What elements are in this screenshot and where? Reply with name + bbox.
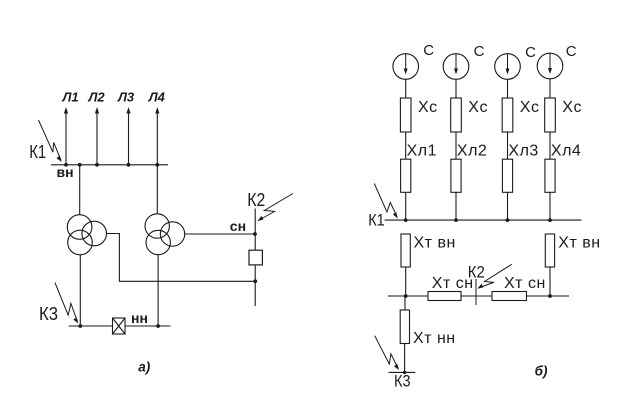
svg-text:Л1: Л1 — [62, 90, 79, 105]
bus К1 — [385, 219, 582, 221]
source G4 circle — [537, 53, 563, 79]
wire T2 НН down — [157, 255, 159, 326]
node dot СН2 — [253, 279, 257, 283]
source G3 circle — [495, 54, 521, 80]
source G2 circle — [443, 54, 469, 80]
svg-text:вн: вн — [57, 164, 74, 180]
node dot b4-СН — [548, 294, 552, 298]
line СН — [388, 295, 569, 297]
fault arrow К3 — [55, 283, 78, 324]
resistor Хт вн left — [401, 234, 410, 267]
arrowhead Л4 — [155, 107, 159, 114]
arrowhead Л3 — [126, 107, 130, 114]
svg-text:Хс: Хс — [520, 99, 540, 116]
resistor Хс4 — [545, 98, 556, 132]
wire Хс2 to Хл2 — [455, 132, 457, 159]
reactor box on СН line — [249, 250, 262, 265]
wire Хл4 to bus — [549, 192, 551, 220]
wire Хс1 to Хл1 — [405, 132, 407, 159]
source G1 arrow — [404, 54, 408, 75]
load box with X on НН — [113, 318, 126, 334]
wire Хс3 to Хл3 — [507, 132, 509, 159]
svg-text:Л3: Л3 — [117, 90, 135, 105]
resistor Хл1 — [401, 159, 411, 192]
svg-text:а): а) — [138, 360, 151, 375]
wire Хт вн left to СН line — [405, 267, 407, 296]
resistor Хл3 — [502, 159, 512, 192]
svg-text:Хт вн: Хт вн — [414, 235, 456, 252]
node К3 tick — [389, 371, 416, 373]
resistor Хс1 — [400, 98, 411, 132]
bottom bus НН — [69, 325, 171, 327]
node dot b3-bus — [506, 218, 510, 222]
node dot Л2-bus — [95, 163, 99, 167]
source G3 arrow — [506, 54, 510, 75]
node dot T2-НН — [156, 324, 160, 328]
svg-text:Хл4: Хл4 — [551, 143, 581, 160]
bus ВН — [51, 164, 168, 166]
wire T1 СН stepped to node СН2 — [107, 234, 256, 282]
wire Хл2 to bus — [455, 192, 457, 220]
resistor Хс3 — [502, 98, 513, 132]
wire Хт вн right to СН line — [549, 267, 551, 296]
svg-text:С: С — [474, 43, 485, 60]
node dot Л4-bus — [155, 163, 159, 167]
svg-text:К2: К2 — [468, 262, 485, 281]
node К2 tick — [475, 279, 477, 305]
transformer T2 winding ВН — [145, 214, 169, 238]
resistor Хл4 — [545, 159, 555, 192]
svg-text:нн: нн — [131, 310, 148, 326]
source G1 circle — [393, 54, 419, 80]
resistor Хт сн right — [492, 292, 527, 301]
transformer T1 winding ВН — [67, 215, 92, 240]
wire Хл1 to bus — [405, 192, 407, 220]
wire G2 to Хс2 — [455, 79, 457, 98]
wire Хл3 to bus — [507, 192, 509, 220]
fault arrow К2 — [257, 194, 293, 222]
transformer T2 winding НН — [146, 230, 170, 254]
svg-text:Хт сн: Хт сн — [504, 275, 546, 292]
svg-text:Л4: Л4 — [148, 90, 166, 105]
node dot b1-СН — [404, 294, 408, 298]
arrowhead Л1 — [64, 107, 68, 114]
svg-text:С: С — [566, 43, 577, 60]
node dot Л1-bus — [64, 163, 68, 167]
node СН vertical line — [254, 209, 256, 307]
node dot T1-НН — [78, 324, 82, 328]
node dot T1-bus — [78, 163, 82, 167]
svg-text:Хс: Хс — [562, 99, 582, 116]
wire line Л1 — [65, 111, 67, 165]
svg-text:Хл2: Хл2 — [457, 143, 487, 160]
wire СН to Хт нн — [404, 296, 406, 310]
wire line Л3 — [128, 111, 130, 165]
svg-text:б): б) — [535, 363, 548, 378]
wire G1 to Хс1 — [405, 79, 407, 98]
wire bus to T1 — [79, 165, 81, 215]
resistor Хс2 — [451, 98, 462, 132]
transformer T2 winding СН — [160, 222, 184, 246]
wire Хс4 to Хл4 — [549, 132, 551, 159]
svg-text:К2: К2 — [247, 190, 265, 210]
wire T1 НН down — [79, 255, 81, 326]
fault arrow К3 right — [375, 336, 399, 370]
wire T2 СН to node СН — [185, 233, 256, 235]
node dot b4-bus — [548, 218, 552, 222]
node dot Л3-bus — [127, 163, 131, 167]
resistor Хт сн left — [428, 292, 461, 301]
wire G4 to Хс4 — [549, 79, 551, 98]
node dot b2-bus — [454, 218, 458, 222]
source G4 arrow — [548, 53, 552, 74]
resistor Хт вн right — [545, 234, 554, 267]
fault arrow К2 right — [477, 264, 511, 288]
node dot К3 — [403, 371, 406, 374]
svg-text:Хт нн: Хт нн — [413, 330, 456, 347]
wire G3 to Хс3 — [507, 79, 509, 98]
svg-text:К3: К3 — [394, 372, 411, 391]
svg-text:сн: сн — [230, 218, 246, 234]
fault arrow К1 — [39, 120, 62, 162]
svg-text:Хс: Хс — [468, 99, 488, 116]
svg-text:К1: К1 — [29, 142, 46, 162]
arrowhead Л2 — [95, 107, 99, 114]
wire line Л4 — [156, 111, 158, 165]
svg-text:С: С — [525, 44, 536, 61]
svg-text:К1: К1 — [368, 211, 385, 230]
svg-text:Хл1: Хл1 — [407, 143, 437, 160]
svg-text:Хс: Хс — [418, 99, 438, 116]
resistor Хт нн — [400, 310, 409, 344]
wire bus to T2 — [156, 165, 158, 214]
svg-text:Хл3: Хл3 — [508, 143, 538, 160]
transformer T1 winding НН — [68, 230, 93, 255]
svg-text:С: С — [423, 42, 434, 59]
svg-text:Хт вн: Хт вн — [558, 235, 600, 252]
svg-text:К3: К3 — [39, 304, 58, 324]
node dot СН — [253, 232, 257, 236]
transformer T1 winding СН — [82, 221, 107, 246]
svg-text:Л2: Л2 — [88, 90, 106, 105]
node dot b1-bus — [404, 218, 408, 222]
resistor Хл2 — [451, 159, 461, 192]
fault arrow К1 right — [374, 184, 398, 219]
wire Хт нн to К3 — [404, 344, 406, 373]
wire line Л2 — [96, 111, 98, 165]
source G2 arrow — [454, 54, 458, 75]
